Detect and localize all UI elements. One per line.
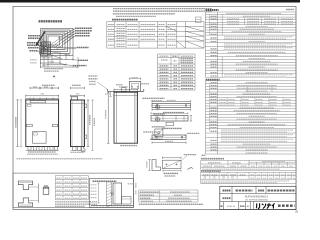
side view body outline [71,100,85,147]
wall mount box header [93,180,117,182]
side view right height dimensions [87,100,95,150]
front view top grille [30,101,45,103]
spec table B grid [206,81,296,154]
perspective view lower annotation labels [30,60,88,72]
perspective view leader line fan to right labels [44,29,76,59]
hole detail crosshair upper [155,104,161,110]
hole detail labels upper [152,100,163,102]
note line under views [17,158,103,160]
back view top seam [114,94,138,96]
back view top dimension annotations [114,87,138,92]
perspective view left label stack [27,36,41,51]
PS installation note line [139,203,203,205]
hole detail plate figure [155,129,163,137]
wall box right annotations [135,183,137,195]
back view bottom label [120,145,137,147]
spec table B cell text [211,83,294,153]
spec table B header label [206,79,220,81]
tiny label above remocon tables [202,154,206,156]
anchor parts table text [57,178,88,198]
title block row 1 labels [223,190,295,192]
svg-text:2016.10: 2016.10 [227,206,236,208]
side view bottom stubs [71,147,86,152]
lower mounting bracket drawing [152,135,186,144]
upper bracket hole label [143,97,165,99]
pedestal hole label [182,155,197,161]
front view front panel door [33,132,47,144]
side view top dimension annotations [71,85,85,97]
wall gap dimension [110,192,114,195]
PS installation small table [139,190,198,202]
clearance table diagonal slashes [166,26,204,48]
front view top seam line [26,102,59,104]
wall box step dim text [128,183,134,185]
perspective view title [39,20,63,22]
svg-text:(RL RUFH2400SAW2(B)): (RL RUFH2400SAW2(B)) [245,198,268,201]
remocon table 2 cell text [202,175,297,183]
mini box at clearance table right [196,17,202,23]
back view body outline [114,92,138,143]
clearance table cell text [108,25,176,47]
side view front inner line [71,100,73,147]
spec table A grid [205,12,296,77]
top scan bar [0,0,300,3]
hole detail crosshair lower [155,116,161,122]
title block model numbers [223,195,269,201]
remocon note bullet line 2 [201,170,221,172]
wall mount left dimension strip [91,183,100,203]
rear mount caption 1 [163,112,184,114]
front view top-left corner box [28,104,32,106]
pipe connection table grid [158,54,196,90]
front view top dimension annotations [26,85,59,100]
wall mount clearance box [89,179,133,208]
hole detail labels lower [152,126,166,128]
spec table A header label [206,9,219,11]
perspective view unit body cluster [40,42,53,59]
Rinnai logo [256,203,294,209]
front view body outline [26,100,59,147]
perspective view right label stack [75,28,92,47]
pipe connection table cell text [160,56,194,88]
perspective view leader lines from left labels [38,36,48,53]
bracket side profile drawing [151,112,192,126]
anchor parts table grid [55,176,88,200]
svg-text:RUFH-A2400SAW2-1: RUFH-A2400SAW2-1 [245,195,269,198]
remocon table 1 grid [201,160,297,170]
ps bracket drawing labels [89,76,108,89]
lower bracket hole label right [184,133,199,136]
side view top cap [71,97,78,100]
floor line and hatch [90,205,133,207]
pedestal lower dimension [163,168,193,172]
anchor bracket bottom figure [18,198,38,207]
lower bracket hole label left [143,132,157,136]
front view bottom labels [27,152,58,154]
perspective view nested top-face rectangles [41,29,74,56]
title block row 3 date and scale [221,205,250,208]
spec table A unit label [286,9,295,11]
anchor bolt connector [39,184,49,204]
side view mounting hooks [85,104,87,139]
anchor bracket top figure [18,181,38,190]
clearance table grid [107,22,204,49]
wall section hatch [107,182,112,207]
pedestal caption [164,172,179,174]
perspective view lower dimension lines [41,52,79,77]
side view bottom label [71,151,85,153]
unit side profile in wall box [113,183,131,204]
installation notes paragraph [112,9,212,20]
remocon table 1 cell text [202,162,293,170]
title block grid [220,186,296,209]
drawing frame border [13,7,296,210]
remocon note bullet line 1 [201,158,224,160]
front view left height dimension [16,100,22,147]
remocon table 2 grid [201,172,297,183]
front view bottom pipe stubs [26,147,59,151]
ps top plate drawing [105,77,149,96]
hole detail labels middle [153,113,165,115]
front view side vents [27,124,58,126]
perspective view exhaust direction arrow [35,32,45,47]
hole detail caption [150,138,163,140]
back view left dimension [106,92,110,143]
spec table A cell text [211,14,294,77]
pedestal drawing [147,157,181,171]
upper mounting bracket drawing [152,100,191,111]
anchor notes text [55,202,97,207]
bottom-left section box [13,173,134,207]
side view back mounting plate lines [71,100,85,147]
front panel door sticker [34,133,38,135]
rear mount caption 2 [162,127,182,129]
back view inner lines [116,92,136,143]
